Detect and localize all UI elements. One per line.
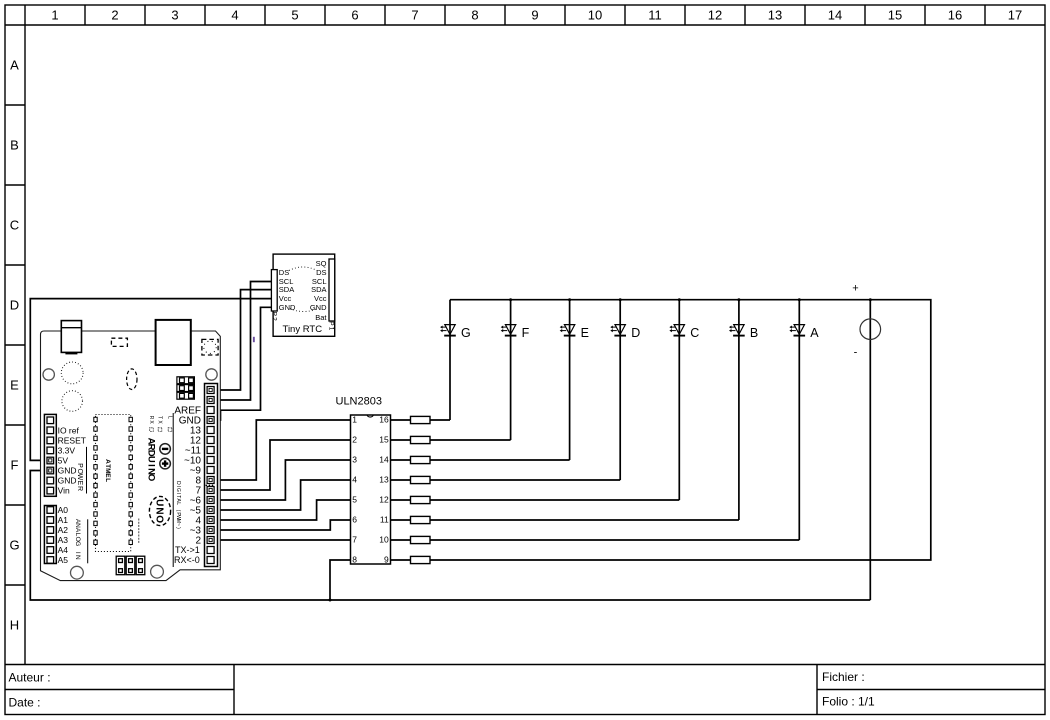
svg-text:O: O bbox=[146, 474, 157, 481]
Arduino ARDUINO label bbox=[146, 438, 157, 482]
label I (net label on I2C bus) bbox=[253, 337, 255, 342]
svg-text:L: L bbox=[104, 478, 111, 482]
svg-text:C: C bbox=[10, 218, 19, 233]
svg-text:14: 14 bbox=[828, 8, 842, 23]
svg-text:D: D bbox=[631, 326, 640, 340]
svg-text:11: 11 bbox=[380, 515, 389, 525]
wire anode top rail with right riser to ULN pin9 row bbox=[430, 300, 931, 560]
svg-text:IO ref: IO ref bbox=[58, 425, 80, 435]
svg-text:15: 15 bbox=[379, 435, 389, 445]
power supply source V1 bbox=[852, 283, 880, 359]
svg-text:Vcc: Vcc bbox=[314, 294, 327, 303]
svg-text:13: 13 bbox=[768, 8, 782, 23]
svg-text:4: 4 bbox=[231, 8, 238, 23]
wire SDA: Arduino SDA pin to RTC SDA bbox=[212, 290, 271, 390]
svg-text:~: ~ bbox=[175, 523, 181, 526]
Arduino ANALOG IN label group bbox=[74, 519, 87, 563]
Arduino ATmega chip bbox=[94, 415, 139, 552]
wire Arduino pin 7 to ULN input bbox=[212, 440, 350, 490]
wire GND: Arduino digital GND pin to RTC GND bbox=[212, 307, 271, 420]
svg-text:F: F bbox=[11, 458, 19, 473]
Arduino UNO logo bbox=[149, 496, 170, 525]
svg-text:12: 12 bbox=[708, 8, 722, 23]
node junction J4 bbox=[678, 298, 681, 301]
svg-text:Vin: Vin bbox=[58, 486, 70, 496]
svg-text:F: F bbox=[522, 326, 530, 340]
svg-text:A1: A1 bbox=[58, 515, 69, 525]
Arduino digital header bbox=[205, 384, 218, 567]
resistor R4 bbox=[411, 476, 431, 483]
wire LED E column (rail to ULN output row) bbox=[569, 300, 571, 460]
Arduino barrel jack bbox=[61, 321, 81, 355]
node junction J8 bbox=[329, 599, 332, 602]
svg-text:Fichier :: Fichier : bbox=[822, 670, 865, 684]
wire Arduino pin ~3 to ULN input bbox=[212, 520, 350, 530]
wire LED F column (rail to ULN output row) bbox=[510, 300, 512, 440]
svg-text:Folio : 1/1: Folio : 1/1 bbox=[822, 695, 875, 709]
node junction J1 bbox=[509, 298, 512, 301]
wire LED D column (rail to ULN output row) bbox=[619, 300, 621, 480]
resistor R7 bbox=[411, 536, 431, 543]
svg-text:6: 6 bbox=[352, 515, 357, 525]
svg-text:G: G bbox=[9, 538, 19, 553]
svg-text:16: 16 bbox=[379, 415, 389, 425]
svg-text:SDA: SDA bbox=[279, 285, 294, 294]
svg-text:E: E bbox=[581, 326, 589, 340]
svg-text:2: 2 bbox=[271, 317, 278, 321]
svg-text:D: D bbox=[10, 298, 19, 313]
svg-text:B: B bbox=[10, 138, 19, 153]
svg-text:T: T bbox=[156, 416, 162, 419]
svg-text:3: 3 bbox=[352, 455, 357, 465]
wire LED B column (rail to ULN output row) bbox=[738, 300, 740, 520]
LED DB bbox=[729, 325, 758, 340]
svg-text:H: H bbox=[10, 618, 19, 633]
svg-text:A2: A2 bbox=[58, 525, 69, 535]
svg-text:14: 14 bbox=[379, 455, 389, 465]
svg-text:13: 13 bbox=[379, 475, 389, 485]
wire SCL: Arduino SCL pin to RTC SCL bbox=[212, 282, 271, 401]
wire ULN pin11 row to resistor and LED B bbox=[391, 519, 739, 521]
wire LED G column (rail to ULN output row) bbox=[449, 300, 451, 420]
wire Arduino pin ~5 to ULN input bbox=[212, 480, 350, 510]
svg-text:GND: GND bbox=[279, 303, 296, 312]
svg-text:G: G bbox=[461, 326, 471, 340]
svg-text:10: 10 bbox=[379, 535, 389, 545]
svg-text:7: 7 bbox=[411, 8, 418, 23]
wire supply vertical through source bbox=[869, 300, 871, 600]
svg-text:GND: GND bbox=[58, 466, 77, 476]
svg-text:D: D bbox=[175, 481, 181, 485]
svg-text:5V: 5V bbox=[58, 455, 69, 465]
svg-text:1: 1 bbox=[328, 327, 335, 331]
Arduino decoration dashed rect bbox=[111, 338, 127, 346]
wire ULN pin13 row to resistor and LED D bbox=[391, 479, 621, 481]
svg-text:A: A bbox=[810, 326, 819, 340]
LED DG bbox=[440, 325, 471, 340]
Arduino dashed ellipse (crystal) bbox=[127, 369, 137, 390]
Arduino dotted circles bbox=[61, 362, 83, 411]
svg-text:P: P bbox=[76, 463, 83, 468]
svg-text:Auteur :: Auteur : bbox=[9, 671, 51, 685]
resistor R3 bbox=[411, 456, 431, 463]
svg-text:P: P bbox=[328, 321, 335, 325]
svg-text:RX<-0: RX<-0 bbox=[174, 555, 200, 565]
resistor R6 bbox=[411, 516, 431, 523]
svg-text:C: C bbox=[690, 326, 699, 340]
svg-text:15: 15 bbox=[888, 8, 902, 23]
svg-text:6: 6 bbox=[351, 8, 358, 23]
wire ULN pin14 row to resistor and LED E bbox=[391, 459, 570, 461]
svg-text:3.3V: 3.3V bbox=[58, 445, 76, 455]
Arduino USB connector bbox=[156, 320, 191, 365]
svg-text:5: 5 bbox=[291, 8, 298, 23]
svg-text:SQ: SQ bbox=[316, 259, 327, 268]
wire 5V net: Arduino 5V pin to Tiny RTC Vcc bbox=[30, 299, 271, 461]
svg-text:R: R bbox=[148, 416, 154, 420]
svg-text:DS: DS bbox=[316, 268, 326, 277]
svg-text:B: B bbox=[750, 326, 758, 340]
svg-text:L: L bbox=[175, 502, 181, 505]
svg-text:1: 1 bbox=[51, 8, 58, 23]
Arduino POWER label group bbox=[76, 447, 87, 494]
wire Arduino pin 4 to ULN input bbox=[212, 500, 350, 520]
module U3 Arduino UNO board outline bbox=[41, 331, 221, 581]
svg-text:P: P bbox=[271, 312, 278, 316]
svg-text:L: L bbox=[166, 416, 172, 419]
wire ULN pin16 row to resistor and LED G bbox=[391, 419, 451, 421]
module U2 Tiny RTC bbox=[271, 254, 335, 336]
Arduino polarity symbols bbox=[160, 444, 171, 469]
resistor R8 bbox=[411, 556, 431, 563]
svg-text:TX->1: TX->1 bbox=[175, 545, 200, 555]
node junction J3 bbox=[619, 298, 622, 301]
svg-text:Date :: Date : bbox=[9, 696, 41, 710]
svg-text:12: 12 bbox=[379, 495, 389, 505]
svg-text:1: 1 bbox=[352, 415, 357, 425]
node junction J6 bbox=[798, 298, 801, 301]
resistor R2 bbox=[411, 436, 431, 443]
Arduino mounting holes bbox=[43, 369, 217, 579]
svg-text:A5: A5 bbox=[58, 555, 69, 565]
svg-text:RESET: RESET bbox=[58, 435, 86, 445]
svg-text:DS: DS bbox=[279, 268, 289, 277]
svg-text:GND: GND bbox=[58, 476, 77, 486]
wire LED A column (rail to ULN output row) bbox=[798, 300, 800, 540]
svg-text:7: 7 bbox=[352, 535, 357, 545]
svg-text:3: 3 bbox=[171, 8, 178, 23]
svg-text:I: I bbox=[146, 464, 157, 467]
svg-text:O: O bbox=[153, 515, 164, 523]
resistor R1 bbox=[411, 416, 431, 423]
node junction J2 bbox=[568, 298, 571, 301]
Arduino ICSP header 1 bbox=[177, 377, 195, 399]
wire LED C column (rail to ULN output row) bbox=[678, 300, 680, 500]
Arduino analog header bbox=[44, 506, 56, 564]
Arduino DIGITAL PWM label group bbox=[173, 413, 181, 567]
svg-text:Bat: Bat bbox=[315, 313, 327, 322]
svg-text:16: 16 bbox=[948, 8, 962, 23]
svg-text:2: 2 bbox=[352, 435, 357, 445]
wire Arduino pin ~6 to ULN input bbox=[212, 460, 350, 500]
Arduino decoration dashed square with dotted circle bbox=[202, 339, 218, 355]
wire Arduino pin 2 to ULN pin7 bbox=[212, 539, 350, 541]
wire GND net: Arduino GND pin, bottom rail to supply minus bbox=[30, 471, 870, 601]
svg-text:A: A bbox=[10, 58, 19, 73]
svg-text:17: 17 bbox=[1008, 8, 1022, 23]
svg-text:A4: A4 bbox=[58, 545, 69, 555]
Arduino TX RX L leds bbox=[148, 416, 173, 432]
svg-text:U: U bbox=[153, 499, 164, 506]
resistor R5 bbox=[411, 496, 431, 503]
svg-text:N: N bbox=[74, 555, 81, 560]
IC U1 ULN2803 bbox=[336, 396, 391, 565]
svg-text:2: 2 bbox=[111, 8, 118, 23]
svg-text:N: N bbox=[153, 507, 164, 514]
wire ULN pin12 row to resistor and LED C bbox=[391, 499, 680, 501]
LED DE bbox=[560, 325, 589, 340]
LED DA bbox=[789, 325, 819, 340]
svg-text:G: G bbox=[74, 541, 81, 546]
svg-text:E: E bbox=[10, 378, 19, 393]
svg-text:Vcc: Vcc bbox=[279, 294, 292, 303]
wire ULN pin15 row to resistor and LED F bbox=[391, 439, 511, 441]
svg-text:SDA: SDA bbox=[311, 285, 326, 294]
svg-text:I: I bbox=[74, 552, 81, 554]
svg-text:+: + bbox=[852, 283, 858, 295]
wire ULN pin8 to ground rail bbox=[330, 560, 351, 600]
wire ULN pin10 row to resistor and LED A bbox=[391, 539, 800, 541]
svg-text:ULN2803: ULN2803 bbox=[336, 396, 382, 408]
svg-text:9: 9 bbox=[384, 555, 389, 565]
svg-text:A3: A3 bbox=[58, 535, 69, 545]
svg-text:8: 8 bbox=[471, 8, 478, 23]
Arduino power header bbox=[44, 414, 56, 496]
node junction J5 bbox=[737, 298, 740, 301]
svg-text:G: G bbox=[175, 488, 181, 492]
wire ULN pin9 row left part bbox=[391, 559, 411, 561]
node junction J7 bbox=[869, 298, 872, 301]
wire Arduino pin 8 to ULN input bbox=[212, 420, 350, 480]
svg-text:9: 9 bbox=[531, 8, 538, 23]
svg-text:5: 5 bbox=[352, 495, 357, 505]
LED DD bbox=[610, 325, 640, 340]
Arduino ICSP header 2 bbox=[116, 556, 145, 575]
LED DF bbox=[501, 325, 530, 340]
svg-text:-: - bbox=[854, 347, 858, 359]
svg-text:Tiny RTC: Tiny RTC bbox=[283, 324, 323, 335]
svg-text:I: I bbox=[175, 493, 181, 494]
svg-text:R: R bbox=[76, 486, 83, 491]
svg-text:8: 8 bbox=[352, 555, 357, 565]
LED DC bbox=[669, 325, 699, 340]
svg-text:A0: A0 bbox=[58, 505, 69, 515]
svg-text:U: U bbox=[146, 456, 157, 463]
svg-text:I: I bbox=[175, 486, 181, 487]
svg-text:E: E bbox=[76, 480, 83, 485]
svg-text:11: 11 bbox=[648, 8, 662, 23]
svg-text:4: 4 bbox=[352, 475, 357, 485]
svg-text:10: 10 bbox=[588, 8, 602, 23]
